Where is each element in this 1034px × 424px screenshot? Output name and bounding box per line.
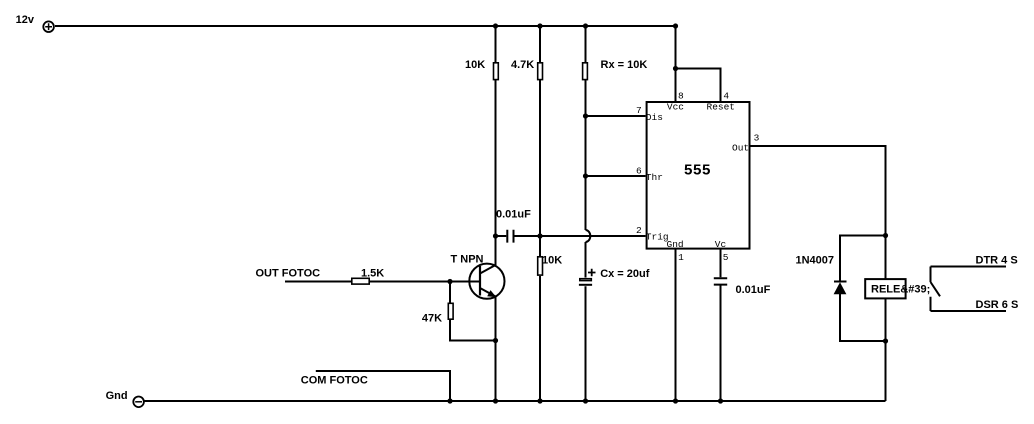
svg-text:Vc: Vc xyxy=(715,239,727,250)
svg-text:Dis: Dis xyxy=(646,112,663,123)
svg-text:Rx = 10K: Rx = 10K xyxy=(601,59,648,71)
svg-text:6: 6 xyxy=(636,166,642,177)
svg-text:1: 1 xyxy=(678,252,684,263)
svg-text:OUT FOTOC: OUT FOTOC xyxy=(256,268,321,280)
svg-text:12v: 12v xyxy=(16,14,35,26)
svg-text:5: 5 xyxy=(723,252,729,263)
svg-text:10K: 10K xyxy=(465,59,485,71)
svg-text:Out: Out xyxy=(732,143,749,154)
svg-text:Thr: Thr xyxy=(646,172,663,183)
svg-text:Reset: Reset xyxy=(707,102,736,113)
svg-text:1.5K: 1.5K xyxy=(361,268,384,280)
svg-text:Cx = 20uf: Cx = 20uf xyxy=(600,268,650,280)
svg-text:Trig: Trig xyxy=(646,232,669,243)
svg-text:3: 3 xyxy=(754,133,760,144)
svg-text:4: 4 xyxy=(723,91,729,102)
svg-text:10K: 10K xyxy=(542,255,562,267)
svg-text:555: 555 xyxy=(684,163,711,180)
svg-text:Gnd: Gnd xyxy=(106,390,128,402)
svg-text:RELE&#39;: RELE&#39; xyxy=(871,284,930,296)
svg-text:T NPN: T NPN xyxy=(451,254,484,266)
svg-text:4.7K: 4.7K xyxy=(511,59,534,71)
svg-text:Vcc: Vcc xyxy=(667,102,684,113)
svg-text:8: 8 xyxy=(678,91,684,102)
svg-text:Gnd: Gnd xyxy=(667,239,684,250)
svg-text:1N4007: 1N4007 xyxy=(796,255,835,267)
svg-text:0.01uF: 0.01uF xyxy=(496,209,531,221)
svg-text:DTR 4 S: DTR 4 S xyxy=(976,255,1018,267)
svg-text:2: 2 xyxy=(636,225,642,236)
svg-text:DSR 6 S: DSR 6 S xyxy=(976,299,1019,311)
svg-text:7: 7 xyxy=(636,105,642,116)
svg-text:0.01uF: 0.01uF xyxy=(736,284,771,296)
svg-text:47K: 47K xyxy=(422,313,442,325)
svg-text:COM FOTOC: COM FOTOC xyxy=(301,375,368,387)
